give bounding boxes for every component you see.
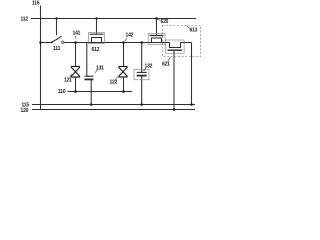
- node dot LC122 bottom on wire 110: [122, 90, 125, 93]
- leader 121: [70, 74, 72, 77]
- node dot cap 132 bottom on rail 115: [140, 103, 143, 106]
- transistor 613-left box: [148, 34, 165, 45]
- node dot cap 132 top on wire 142: [140, 41, 143, 44]
- transistor 613-left gate lead: [156, 19, 158, 36]
- transistor 613-left gate bar: [150, 35, 164, 37]
- capacitor 132 top lead: [141, 43, 143, 73]
- svg-text:121: 121: [64, 78, 72, 84]
- svg-text:612: 612: [92, 47, 100, 53]
- svg-text:120: 120: [21, 108, 29, 114]
- leader 613: [186, 26, 189, 29]
- node dot gate on rail 120: [173, 108, 176, 111]
- capacitor 131: [85, 75, 94, 77]
- svg-text:141: 141: [73, 31, 81, 37]
- svg-text:131: 131: [96, 65, 104, 71]
- LC element 121: [71, 66, 80, 68]
- wire drain down to rail 115: [191, 43, 193, 105]
- svg-text:111: 111: [53, 46, 61, 52]
- wire 116 vertical column: [40, 6, 42, 110]
- transistor 613-right channel (inverted): [170, 43, 181, 48]
- capacitor 131 top lead: [86, 43, 88, 77]
- node dot junction 116 column with node 141 wire: [39, 41, 42, 44]
- svg-text:110: 110: [58, 89, 66, 95]
- dashed box 613: [163, 26, 201, 57]
- leader 131: [95, 70, 97, 73]
- rail 115: [32, 104, 195, 106]
- svg-text:620: 620: [161, 19, 169, 25]
- svg-text:613: 613: [190, 28, 198, 34]
- wire between 613 transistors: [150, 42, 170, 44]
- wire node 141 left segment: [41, 42, 52, 44]
- svg-text:122: 122: [110, 79, 118, 85]
- transistor 612 box: [89, 33, 105, 44]
- node dot LC121 bottom on wire 110: [74, 90, 77, 93]
- transistor 613-right box: [166, 40, 185, 53]
- LC element 122 top lead: [123, 43, 125, 67]
- svg-text:116: 116: [32, 0, 40, 6]
- wire 112/620 top horizontal: [31, 18, 196, 20]
- transistor 613-left channel: [152, 38, 162, 43]
- transistor 612 gate bar: [90, 33, 104, 35]
- node dot switch stub on wire 112: [55, 17, 57, 19]
- node dot cap 131 bottom on rail 115: [90, 103, 93, 106]
- node dot LC122 top on wire 142: [122, 41, 125, 44]
- transistor 613-right drain lead: [181, 42, 192, 44]
- wire node 141-142 to FET 612 and beyond: [64, 42, 149, 44]
- switch 111 contact circle: [62, 41, 64, 43]
- leader 620: [158, 19, 160, 20]
- capacitor 132 box: [134, 69, 149, 79]
- transistor 613-right gate lead to rail 120: [173, 51, 175, 110]
- node dot LC121 top on wire 141: [74, 41, 77, 44]
- node dot transistor 612 gate on wire 112: [95, 17, 97, 19]
- LC element 122: [119, 66, 128, 68]
- transistor 612 gate lead: [96, 19, 98, 34]
- leader 122: [116, 76, 119, 79]
- wire 110: [68, 91, 133, 93]
- LC element 121 top lead: [75, 43, 77, 67]
- wire switch stub: [56, 19, 58, 36]
- leader 142: [125, 38, 127, 42]
- transistor 613-right gate bar: [168, 49, 183, 51]
- svg-text:621: 621: [162, 61, 170, 67]
- node dot 620 gate junction on wire: [155, 17, 158, 20]
- rail 120: [32, 109, 195, 111]
- transistor 612 channel: [92, 38, 102, 43]
- node dot drain on rail 115: [190, 103, 193, 106]
- switch 111 blade: [52, 36, 62, 42]
- capacitor 132: [137, 71, 147, 73]
- leader 621: [168, 57, 171, 61]
- svg-text:112: 112: [21, 16, 29, 22]
- leader 132: [144, 68, 147, 71]
- leader 141: [74, 36, 77, 39]
